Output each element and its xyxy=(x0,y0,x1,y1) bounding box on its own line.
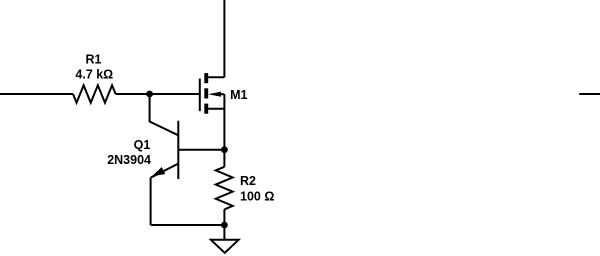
svg-text:R2: R2 xyxy=(240,174,256,188)
ground xyxy=(211,225,239,253)
node gate junction xyxy=(146,91,153,98)
svg-text:4.7 kΩ: 4.7 kΩ xyxy=(75,68,113,82)
node ground junction xyxy=(221,222,228,229)
resistor R1 xyxy=(73,85,116,103)
mosfet M1 xyxy=(200,73,225,114)
svg-text:M1: M1 xyxy=(230,88,247,102)
svg-text:R1: R1 xyxy=(86,53,102,67)
wire collector to gate node xyxy=(150,94,179,135)
wire source tie xyxy=(223,94,225,150)
wire drain rail xyxy=(223,0,225,77)
node source junction xyxy=(221,146,228,153)
wire bottom xyxy=(151,224,225,226)
wire output stub right xyxy=(580,93,600,95)
svg-text:100 Ω: 100 Ω xyxy=(240,190,274,204)
wire R1 to gate xyxy=(116,93,199,95)
wire input left xyxy=(0,93,73,95)
wire base to source node xyxy=(178,149,224,151)
wire emitter down xyxy=(150,178,152,225)
transistor Q1 xyxy=(151,121,179,179)
svg-text:2N3904: 2N3904 xyxy=(107,153,151,167)
svg-text:Q1: Q1 xyxy=(134,138,151,152)
resistor R2 xyxy=(216,150,233,225)
